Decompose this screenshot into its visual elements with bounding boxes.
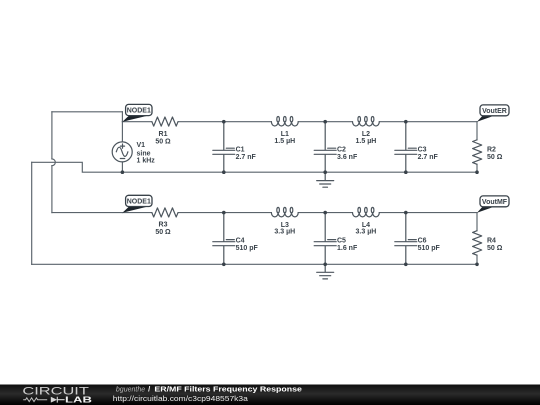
svg-text:R2: R2 [487,146,496,153]
resistor R1 [152,117,178,126]
svg-text:bguenthe: bguenthe [116,386,145,393]
ground top circuit [317,172,334,187]
source V1 sine wave [116,147,128,156]
capacitor C5 [314,213,336,265]
svg-text:3.6 nF: 3.6 nF [337,154,358,161]
svg-text:1.6 nF: 1.6 nF [337,245,358,252]
node dot bottom circuit C6 top [404,211,408,215]
svg-text:2.7 nF: 2.7 nF [418,154,439,161]
wire top circuit bottom rail [32,162,477,172]
svg-text:NODE1: NODE1 [127,108,151,115]
svg-text:ER/MF Filters Frequency Respon: ER/MF Filters Frequency Response [154,384,302,393]
node dot bottom rail C6 [404,263,408,267]
inductor L3 [271,213,298,217]
capacitor C4 [213,213,235,265]
wire R2 bottom stub [476,164,478,172]
inductor L1 [271,122,298,126]
wire top rail L1 to C2 [298,121,325,123]
svg-text:R4: R4 [487,237,496,244]
svg-text:1.5 µH: 1.5 µH [356,138,377,145]
node dot V1 bottom [121,170,125,174]
wire bottom top rail L4 to C6 [379,212,406,214]
wire top rail C1 to L1 [224,121,272,123]
component labels [137,131,503,252]
node flag VoutMF [477,196,509,213]
svg-text:C6: C6 [418,237,427,244]
node dot top rail C3 [404,120,408,124]
svg-text:VoutMF: VoutMF [482,199,508,206]
svg-text:50 Ω: 50 Ω [155,229,171,236]
wire bottom top rail C6 to R4 [406,212,477,214]
wire top rail L2 to C3 [379,121,406,123]
svg-text:LAB: LAB [65,396,93,405]
node dot bottom circuit C4 top [222,211,226,215]
node flag VoutER [477,105,509,122]
svg-text:3.3 µH: 3.3 µH [356,229,377,236]
svg-text:http://circuitlab.com/c3cp9485: http://circuitlab.com/c3cp948557k3a [113,394,249,403]
svg-text:C4: C4 [236,237,245,244]
wire V1 bottom stub [121,162,123,172]
svg-text:2.7 nF: 2.7 nF [236,154,257,161]
wire top rail C3 to R2 [406,121,477,123]
source V1 circle [112,142,132,162]
wire top rail left segment [122,121,151,123]
ground bottom circuit [317,264,334,279]
wire R2 top stub [476,122,478,140]
wire node1 net left vertical upper [51,112,53,159]
inductor L2 [353,122,380,126]
node dot bottom rail C4 [222,263,226,267]
wire ground net left vertical [31,162,33,264]
resistor R3 [152,208,178,217]
wire node1 vertical stub at top junction [121,112,123,122]
wire bottom top rail C5 to L4 [325,212,352,214]
capacitor C3 [395,122,417,173]
node dot bottom rail C1 [222,170,226,174]
capacitor C1 [213,122,235,173]
wire hop over ground wire [52,159,55,166]
wire bottom top rail C4 to L3 [224,212,272,214]
resistor R2 [473,140,482,165]
node dot top rail C1 [222,120,226,124]
wire R4 bottom stub [476,255,478,264]
svg-text:50 Ω: 50 Ω [487,245,503,252]
node dot bottom rail C5 ground [323,263,327,267]
svg-text:C3: C3 [418,146,427,153]
svg-text:R1: R1 [159,131,168,138]
node dot bottom rail C2 ground [323,170,327,174]
svg-text:50 Ω: 50 Ω [487,154,503,161]
wire R4 top stub [476,213,478,231]
wire bottom rail of bottom circuit [32,263,477,265]
wire bottom top rail R3 to C4 [178,212,224,214]
resistor R4 [473,231,482,256]
wire bottom circuit top rail left segment [122,212,151,214]
logo resistor squiggle [23,398,47,402]
svg-text:R3: R3 [159,222,168,229]
node dot R4 bottom [475,263,479,267]
svg-text:1 kHz: 1 kHz [137,158,156,165]
wire V1 top stub [121,122,123,142]
node flag NODE1 top [122,104,152,121]
junction dots [121,120,479,266]
svg-text:NODE1: NODE1 [127,199,151,206]
svg-text:C5: C5 [337,237,346,244]
node dot R2 bottom [475,170,479,174]
svg-text:1.5 µH: 1.5 µH [274,138,295,145]
wire node1 net to bottom circuit [52,212,123,214]
capacitor C2 [314,122,336,173]
svg-text:510 pF: 510 pF [418,245,441,252]
svg-text:C1: C1 [236,146,245,153]
node dot bottom circuit C5 top [323,211,327,215]
source V1 minus sign [120,158,124,160]
logo diode [51,397,57,403]
wire node1 net left vertical lower [51,166,53,213]
svg-text:510 pF: 510 pF [236,245,259,252]
node flag NODE1 bottom [122,195,152,212]
svg-text:3.3 µH: 3.3 µH [274,229,295,236]
node dot top rail C2 [323,120,327,124]
svg-text:sine: sine [137,150,151,157]
svg-text:VoutER: VoutER [482,108,507,115]
capacitor C6 [395,213,417,265]
wire node1 net top horizontal [52,111,123,113]
svg-text:C2: C2 [337,146,346,153]
wire top rail R1 to C1 [178,121,224,123]
node dot bottom rail C3 [404,170,408,174]
inductor L4 [353,213,380,217]
svg-text:50 Ω: 50 Ω [155,139,171,146]
wire bottom top rail L3 to C5 [298,212,325,214]
source V1 plus sign [120,144,124,148]
svg-text:V1: V1 [137,142,146,149]
wire top rail C2 to L2 [325,121,352,123]
